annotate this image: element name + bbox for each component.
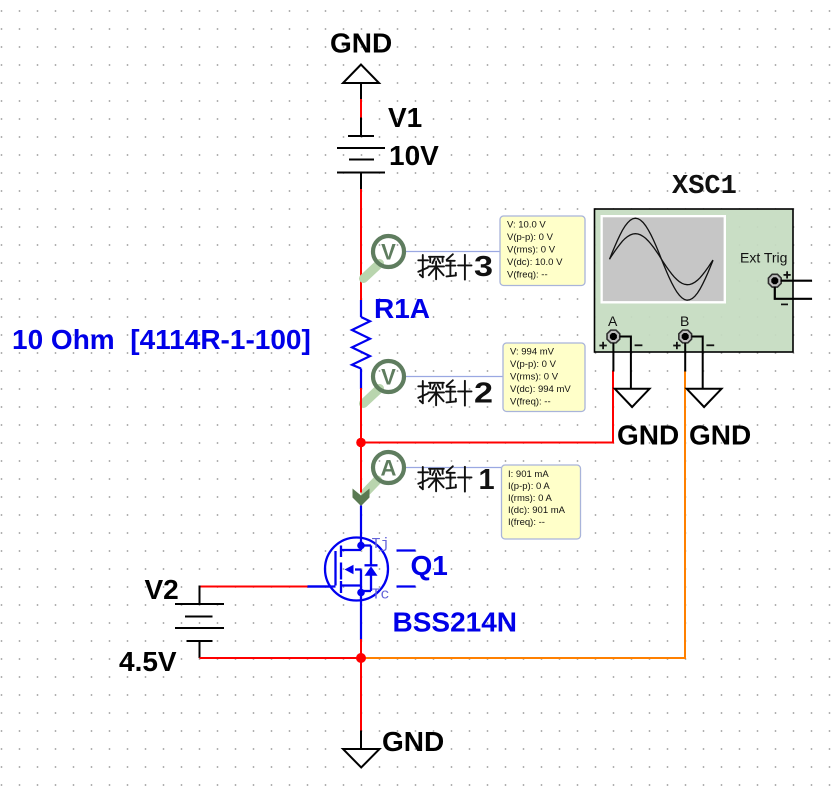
svg-text:4.5V: 4.5V	[119, 646, 177, 677]
svg-text:I(rms): 0 A: I(rms): 0 A	[508, 493, 552, 504]
svg-text:V(freq): --: V(freq): --	[507, 270, 548, 281]
probe 2 leader line	[404, 376, 504, 378]
battery V2	[175, 586, 224, 659]
svg-text:Tj: Tj	[372, 536, 390, 553]
wire (red, source to node 2)	[360, 639, 362, 658]
svg-text:Ext Trig: Ext Trig	[740, 250, 787, 266]
svg-text:10V: 10V	[389, 140, 439, 171]
probe 3 handle	[364, 264, 380, 279]
terminal B	[679, 330, 692, 343]
svg-text:V2: V2	[145, 574, 179, 605]
probe 1 leader line	[404, 467, 501, 469]
channel A minus sign	[635, 344, 643, 346]
wire (red, V2 to node 2)	[200, 657, 362, 659]
svg-text:V: 994 mV: V: 994 mV	[510, 347, 555, 358]
waveform curve B	[610, 234, 714, 285]
svg-text:1: 1	[479, 464, 495, 496]
junction node 2	[356, 653, 366, 663]
wire (Ext Trig +)	[781, 280, 813, 282]
svg-text:GND: GND	[617, 420, 679, 451]
svg-text:V(dc): 994 mV: V(dc): 994 mV	[510, 384, 571, 395]
svg-text:I(p-p): 0 A: I(p-p): 0 A	[508, 481, 550, 492]
svg-text:10 Ohm [4114R-1-100]: 10 Ohm [4114R-1-100]	[12, 324, 311, 355]
Ext Trig plus sign	[784, 271, 791, 278]
wire (blue, Q1 source down)	[360, 600, 362, 640]
wire (blue, probe to Q1 drain)	[360, 506, 362, 543]
ground symbol (bottom)	[343, 731, 380, 768]
probe 1 handle	[365, 480, 378, 493]
svg-text:V(dc): 10.0 V: V(dc): 10.0 V	[507, 257, 563, 268]
Q1 body diode	[365, 566, 378, 576]
oscilloscope screen	[601, 215, 727, 304]
junction node 1	[356, 438, 366, 448]
Q1 pin Tj stub	[397, 549, 416, 551]
resistor R1A	[352, 300, 370, 389]
Q1 drain junction dot	[357, 542, 365, 550]
svg-text:V: 10.0 V: V: 10.0 V	[507, 220, 546, 231]
probe 3 leader line	[404, 251, 501, 253]
wire (red, R1A to node)	[360, 388, 362, 444]
annotation box probe 1	[502, 465, 581, 539]
wire (Ext Trig -)	[775, 287, 812, 299]
wire (black, A+ stub)	[612, 343, 614, 372]
Q1 pin Tc stub	[397, 585, 416, 587]
svg-text:I: 901 mA: I: 901 mA	[508, 469, 549, 480]
svg-text:A: A	[381, 456, 397, 481]
terminal Ext Trig	[768, 274, 781, 287]
svg-text:R1A: R1A	[374, 293, 430, 324]
wire (red, node to probe arrow)	[360, 447, 362, 493]
wire (orange, node 2 to scope B)	[361, 371, 685, 659]
ground symbol (scope A)	[615, 389, 650, 407]
oscilloscope XSC1 body	[595, 209, 794, 352]
label 探针3	[418, 251, 493, 283]
probe 2 handle	[364, 389, 380, 404]
svg-text:XSC1: XSC1	[672, 172, 737, 202]
current probe arrow	[353, 489, 370, 507]
waveform curve A	[610, 218, 714, 300]
annotation box probe 2	[503, 343, 585, 412]
ground symbol (scope B)	[687, 389, 722, 407]
channel B plus sign	[673, 342, 680, 349]
svg-text:3: 3	[474, 251, 493, 283]
svg-text:Q1: Q1	[411, 550, 448, 581]
Q1 source junction dot	[357, 589, 365, 597]
channel B minus sign	[706, 344, 714, 346]
battery V1	[337, 118, 385, 191]
channel A plus sign	[599, 342, 606, 349]
wire (red, V2 to gate)	[200, 586, 309, 588]
current probe 探针1	[373, 452, 404, 483]
Q1 body arrow	[345, 565, 354, 575]
svg-text:I(freq): --: I(freq): --	[508, 517, 545, 528]
terminal A	[607, 330, 620, 343]
voltage probe 探针2	[373, 361, 404, 392]
svg-text:B: B	[680, 313, 689, 329]
label 探针1	[418, 464, 494, 496]
svg-text:V(freq): --: V(freq): --	[510, 397, 551, 408]
svg-text:GND: GND	[382, 726, 444, 757]
wire (red, GND to V1)	[360, 99, 362, 119]
svg-text:V(p-p): 0 V: V(p-p): 0 V	[510, 359, 557, 370]
wire (red, node to scope A)	[361, 371, 613, 443]
svg-text:V(rms): 0 V: V(rms): 0 V	[507, 245, 556, 256]
wire (blue, gate lead)	[308, 585, 331, 587]
annotation box probe 3	[500, 216, 585, 286]
svg-text:V1: V1	[388, 102, 422, 133]
svg-text:Tc: Tc	[372, 587, 390, 604]
ground symbol (top)	[343, 65, 379, 101]
wire (red, node 2 to bottom GND)	[360, 658, 362, 732]
svg-text:I(dc): 901 mA: I(dc): 901 mA	[508, 505, 566, 516]
svg-text:2: 2	[474, 378, 493, 410]
svg-text:GND: GND	[330, 28, 392, 59]
voltage probe 探针3	[373, 236, 404, 267]
wire (black, A- to ground)	[620, 337, 631, 390]
svg-text:V(rms): 0 V: V(rms): 0 V	[510, 372, 559, 383]
svg-text:BSS214N: BSS214N	[393, 607, 518, 638]
svg-text:V(p-p): 0 V: V(p-p): 0 V	[507, 232, 554, 243]
svg-text:GND: GND	[689, 420, 751, 451]
wire (black, B- to ground)	[692, 337, 703, 390]
label 探针2	[418, 378, 493, 410]
svg-text:A: A	[608, 313, 618, 329]
transistor Q1 (MOSFET BSS214N)	[308, 538, 389, 601]
wire (red, V1 to R1A)	[360, 189, 362, 301]
Ext Trig minus sign	[781, 303, 788, 305]
wire (black, B+ stub)	[684, 343, 686, 372]
